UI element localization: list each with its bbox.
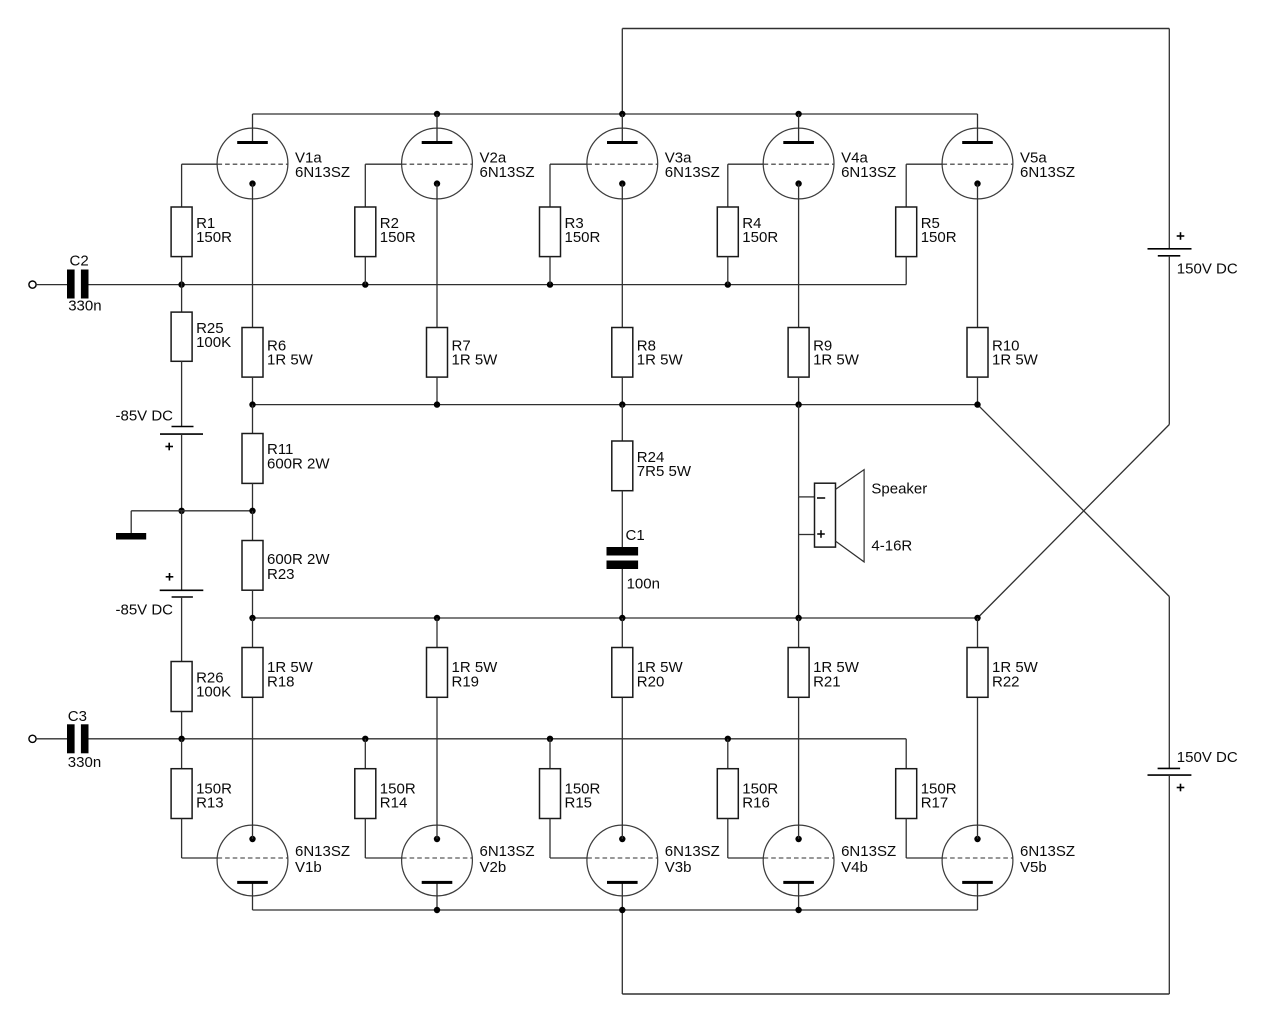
svg-text:R18: R18 bbox=[267, 673, 295, 690]
svg-text:V4b: V4b bbox=[841, 859, 868, 876]
svg-text:R15: R15 bbox=[565, 795, 593, 812]
svg-text:V2b: V2b bbox=[480, 859, 507, 876]
svg-text:7R5 5W: 7R5 5W bbox=[637, 463, 692, 480]
svg-text:V1b: V1b bbox=[295, 859, 322, 876]
svg-text:100K: 100K bbox=[196, 334, 231, 351]
svg-text:6N13SZ: 6N13SZ bbox=[295, 164, 350, 181]
svg-text:Speaker: Speaker bbox=[871, 481, 927, 498]
svg-text:-85V DC: -85V DC bbox=[116, 602, 174, 619]
svg-text:6N13SZ: 6N13SZ bbox=[841, 843, 896, 860]
svg-text:C1: C1 bbox=[626, 527, 645, 544]
svg-text:1R 5W: 1R 5W bbox=[813, 352, 860, 369]
svg-text:600R 2W: 600R 2W bbox=[267, 455, 330, 472]
svg-text:6N13SZ: 6N13SZ bbox=[295, 843, 350, 860]
svg-text:150R: 150R bbox=[380, 229, 416, 246]
svg-text:6N13SZ: 6N13SZ bbox=[1020, 164, 1075, 181]
svg-text:R16: R16 bbox=[742, 795, 770, 812]
svg-text:6N13SZ: 6N13SZ bbox=[665, 843, 720, 860]
svg-text:1R 5W: 1R 5W bbox=[267, 352, 314, 369]
svg-text:R22: R22 bbox=[992, 673, 1020, 690]
svg-text:150R: 150R bbox=[742, 229, 778, 246]
svg-text:R13: R13 bbox=[196, 795, 224, 812]
svg-text:R19: R19 bbox=[452, 673, 480, 690]
svg-text:R21: R21 bbox=[813, 673, 841, 690]
svg-text:-85V DC: -85V DC bbox=[116, 407, 174, 424]
svg-text:150R: 150R bbox=[196, 229, 232, 246]
svg-text:150V DC: 150V DC bbox=[1177, 749, 1238, 766]
svg-text:C2: C2 bbox=[70, 252, 89, 269]
svg-text:150R: 150R bbox=[565, 229, 601, 246]
svg-text:1R 5W: 1R 5W bbox=[992, 352, 1039, 369]
svg-text:6N13SZ: 6N13SZ bbox=[665, 164, 720, 181]
svg-text:330n: 330n bbox=[68, 754, 101, 771]
svg-text:100K: 100K bbox=[196, 683, 231, 700]
svg-text:4-16R: 4-16R bbox=[871, 537, 912, 554]
svg-text:R14: R14 bbox=[380, 795, 408, 812]
svg-text:1R 5W: 1R 5W bbox=[452, 352, 499, 369]
svg-text:100n: 100n bbox=[627, 576, 660, 593]
svg-text:6N13SZ: 6N13SZ bbox=[841, 164, 896, 181]
svg-text:V3b: V3b bbox=[665, 859, 692, 876]
svg-text:R23: R23 bbox=[267, 566, 295, 583]
svg-text:6N13SZ: 6N13SZ bbox=[1020, 843, 1075, 860]
svg-text:6N13SZ: 6N13SZ bbox=[480, 843, 535, 860]
svg-text:1R 5W: 1R 5W bbox=[637, 352, 684, 369]
svg-text:R17: R17 bbox=[921, 795, 949, 812]
svg-text:150R: 150R bbox=[921, 229, 957, 246]
svg-text:C3: C3 bbox=[68, 708, 87, 725]
svg-text:R20: R20 bbox=[637, 673, 665, 690]
svg-text:6N13SZ: 6N13SZ bbox=[480, 164, 535, 181]
svg-text:V5b: V5b bbox=[1020, 859, 1047, 876]
svg-text:150V DC: 150V DC bbox=[1177, 260, 1238, 277]
svg-text:330n: 330n bbox=[68, 297, 101, 314]
